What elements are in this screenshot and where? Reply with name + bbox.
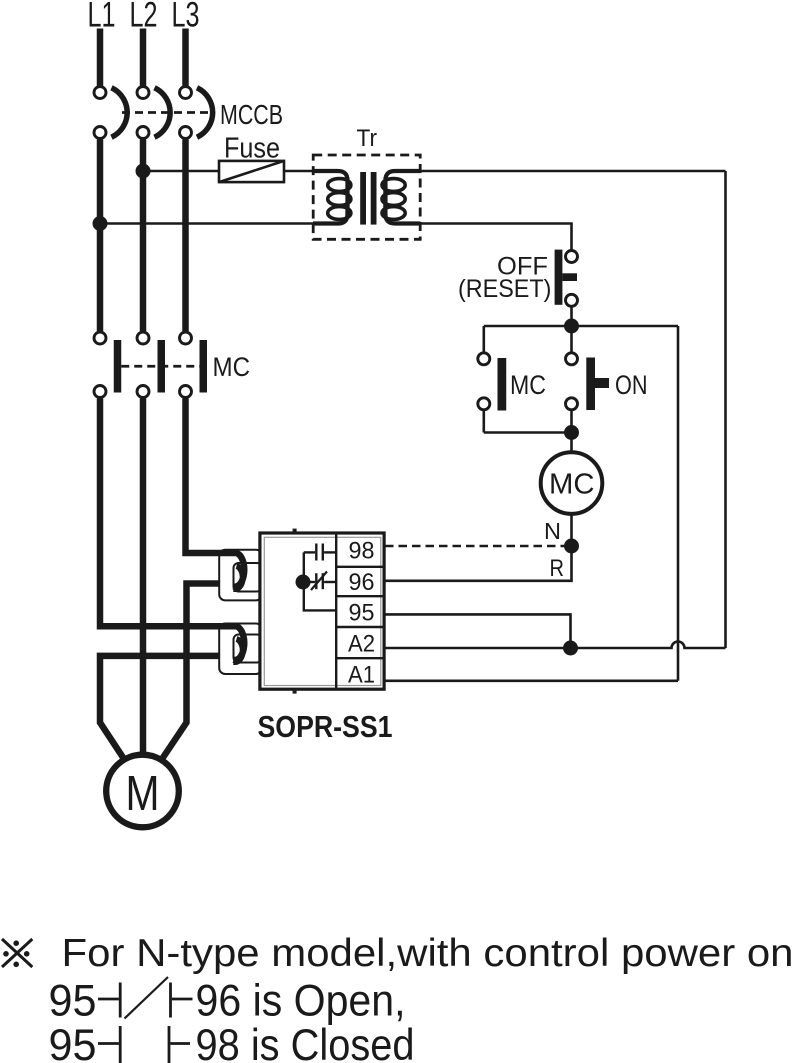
svg-text:95: 95 [49, 977, 97, 1026]
wire 98 to N dashed [385, 545, 572, 548]
MCCB dashed linkage [122, 111, 215, 114]
wire OFF button to junction [570, 307, 573, 326]
relay bottom tick [293, 691, 297, 694]
wire parallel branch top rail [484, 325, 678, 328]
svg-text:95: 95 [349, 599, 375, 626]
svg-text:N: N [544, 518, 561, 544]
transformer secondary lead [385, 171, 420, 224]
relay top tick [293, 529, 297, 532]
fuse Fuse [219, 161, 284, 182]
terminal column divider [335, 533, 337, 689]
svg-text:A2: A2 [348, 630, 375, 657]
wire L1 incoming [97, 29, 104, 86]
svg-text:96 is Open,: 96 is Open, [196, 977, 406, 1026]
wire A1 to riser [385, 679, 678, 682]
wire R to terminal 96 [385, 546, 572, 581]
relay box body [260, 533, 384, 689]
transformer secondary winding [382, 179, 405, 220]
wire L2 breaker to MC contact [140, 140, 147, 332]
transformer primary lead [313, 171, 348, 224]
svg-text:ON: ON [615, 370, 648, 400]
MC main dashed linkage [121, 365, 203, 368]
lower CT loop inner turn [234, 639, 243, 662]
transformer Tr [313, 125, 420, 239]
note marker (reference mark) [2, 939, 32, 967]
wire MC aux branch lower [482, 411, 485, 433]
wire A1 riser to branch top [677, 326, 680, 681]
wire ON branch lower [570, 411, 573, 433]
transformer primary winding [328, 179, 351, 220]
svg-text:(RESET): (RESET) [458, 275, 551, 303]
wire coil to node N [570, 514, 573, 546]
wire secondary top to right edge [419, 170, 726, 173]
svg-text:96: 96 [349, 569, 375, 596]
svg-text:MCCB: MCCB [220, 99, 283, 130]
wire MC aux branch upper [482, 326, 485, 352]
svg-text:SOPR-SS1: SOPR-SS1 [258, 709, 393, 744]
contact MC main poles [94, 332, 207, 398]
wire L3 breaker to MC contact [182, 140, 189, 332]
transformer dashed box [313, 155, 420, 239]
coil MC contactor [541, 452, 603, 514]
wire L1 breaker to MC contact [97, 140, 104, 332]
upper CT loop inner turn [234, 566, 243, 589]
circuit breaker MCCB pole 2 [137, 87, 170, 139]
circuit breaker MCCB pole 1 [94, 87, 127, 139]
wire control tap L2 to fuse [143, 170, 221, 173]
pushbutton OFF (RESET) [555, 250, 578, 307]
wire L3 incoming [182, 29, 189, 86]
junction dot L1 tap [93, 216, 108, 231]
wire terminal 95 to A2 junction [385, 614, 571, 648]
wire L2 incoming [140, 29, 147, 86]
svg-text:Tr: Tr [357, 125, 378, 152]
svg-text:98: 98 [349, 538, 375, 565]
svg-text:MC: MC [213, 352, 251, 382]
internal common bracket to 95 [304, 552, 336, 610]
svg-text:MC: MC [510, 370, 546, 400]
svg-text:A1: A1 [348, 661, 375, 688]
wire parallel branch bottom rail [484, 431, 572, 434]
wire control tap L1 to transformer [100, 222, 316, 225]
node N junction dot [564, 539, 579, 554]
wire L1 loop return to motor [100, 656, 238, 761]
circuit breaker MCCB pole 3 [180, 87, 213, 139]
wire L3 loop return to motor [161, 584, 238, 761]
CT window upper [219, 550, 262, 601]
svg-text:98 is Closed: 98 is Closed [196, 1021, 415, 1063]
internal junction dot [296, 575, 311, 590]
svg-text:Fuse: Fuse [224, 133, 280, 165]
wire junction to coil [570, 433, 573, 453]
wire fuse to transformer [284, 170, 316, 173]
contact MC auxiliary [478, 353, 506, 411]
overload relay SOPR-SS1 [260, 529, 384, 694]
wire secondary bottom to OFF button [419, 224, 572, 250]
relay box inner line [264, 537, 381, 685]
internal NC contact 96 [303, 572, 336, 591]
transformer core [360, 172, 366, 225]
wire L3 MC contact into upper CT loop [186, 399, 245, 587]
svg-text:For N-type model,with control: For N-type model,with control power on [62, 932, 794, 975]
wire L1 MC contact into lower CT loop [100, 399, 244, 661]
junction dot A2/95 [563, 641, 578, 656]
junction dot L2 tap [136, 164, 151, 179]
pushbutton ON [566, 353, 610, 410]
wire right edge down to A2 [724, 171, 727, 648]
svg-text:95: 95 [49, 1021, 97, 1063]
junction dot above coil [564, 425, 579, 440]
terminal cell dividers [336, 566, 384, 568]
junction dot below OFF [564, 319, 579, 334]
wire A2 to right edge with hop [385, 642, 726, 648]
svg-text:M: M [126, 767, 160, 821]
internal NO contact 98 [304, 544, 336, 561]
motor M [106, 755, 179, 828]
CT window lower [219, 624, 262, 675]
wire L2 MC contact to motor [140, 399, 147, 756]
svg-text:MC: MC [549, 468, 595, 500]
svg-text:R: R [550, 555, 565, 582]
wire ON branch upper [570, 333, 573, 352]
